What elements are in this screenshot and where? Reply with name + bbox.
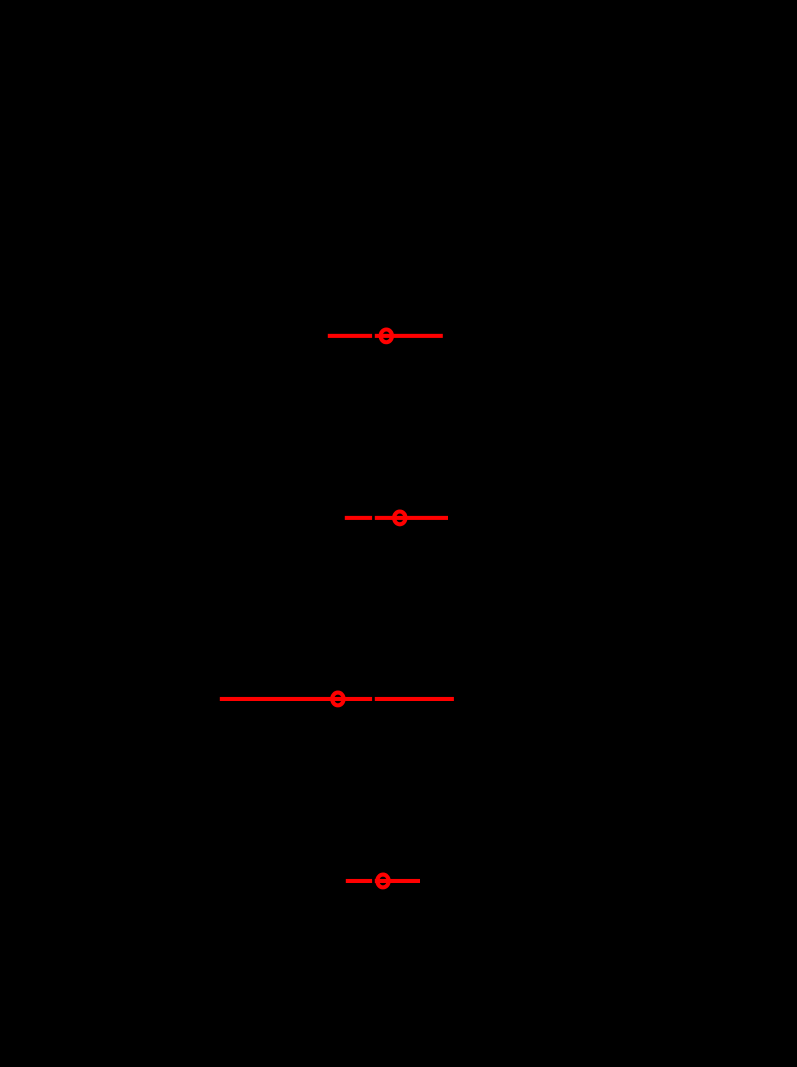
- point estimate circle study 3: [332, 693, 343, 706]
- CI line study 4: [346, 879, 420, 883]
- point estimate circle study 1: [381, 329, 392, 342]
- vertical reference line (black, drawn over CI lines): [372, 240, 375, 960]
- CI line study 1: [328, 334, 443, 338]
- point estimate circle study 4: [377, 875, 388, 888]
- point estimate circle study 2: [394, 512, 405, 525]
- CI line study 2: [345, 516, 448, 520]
- CI line study 3: [220, 697, 454, 701]
